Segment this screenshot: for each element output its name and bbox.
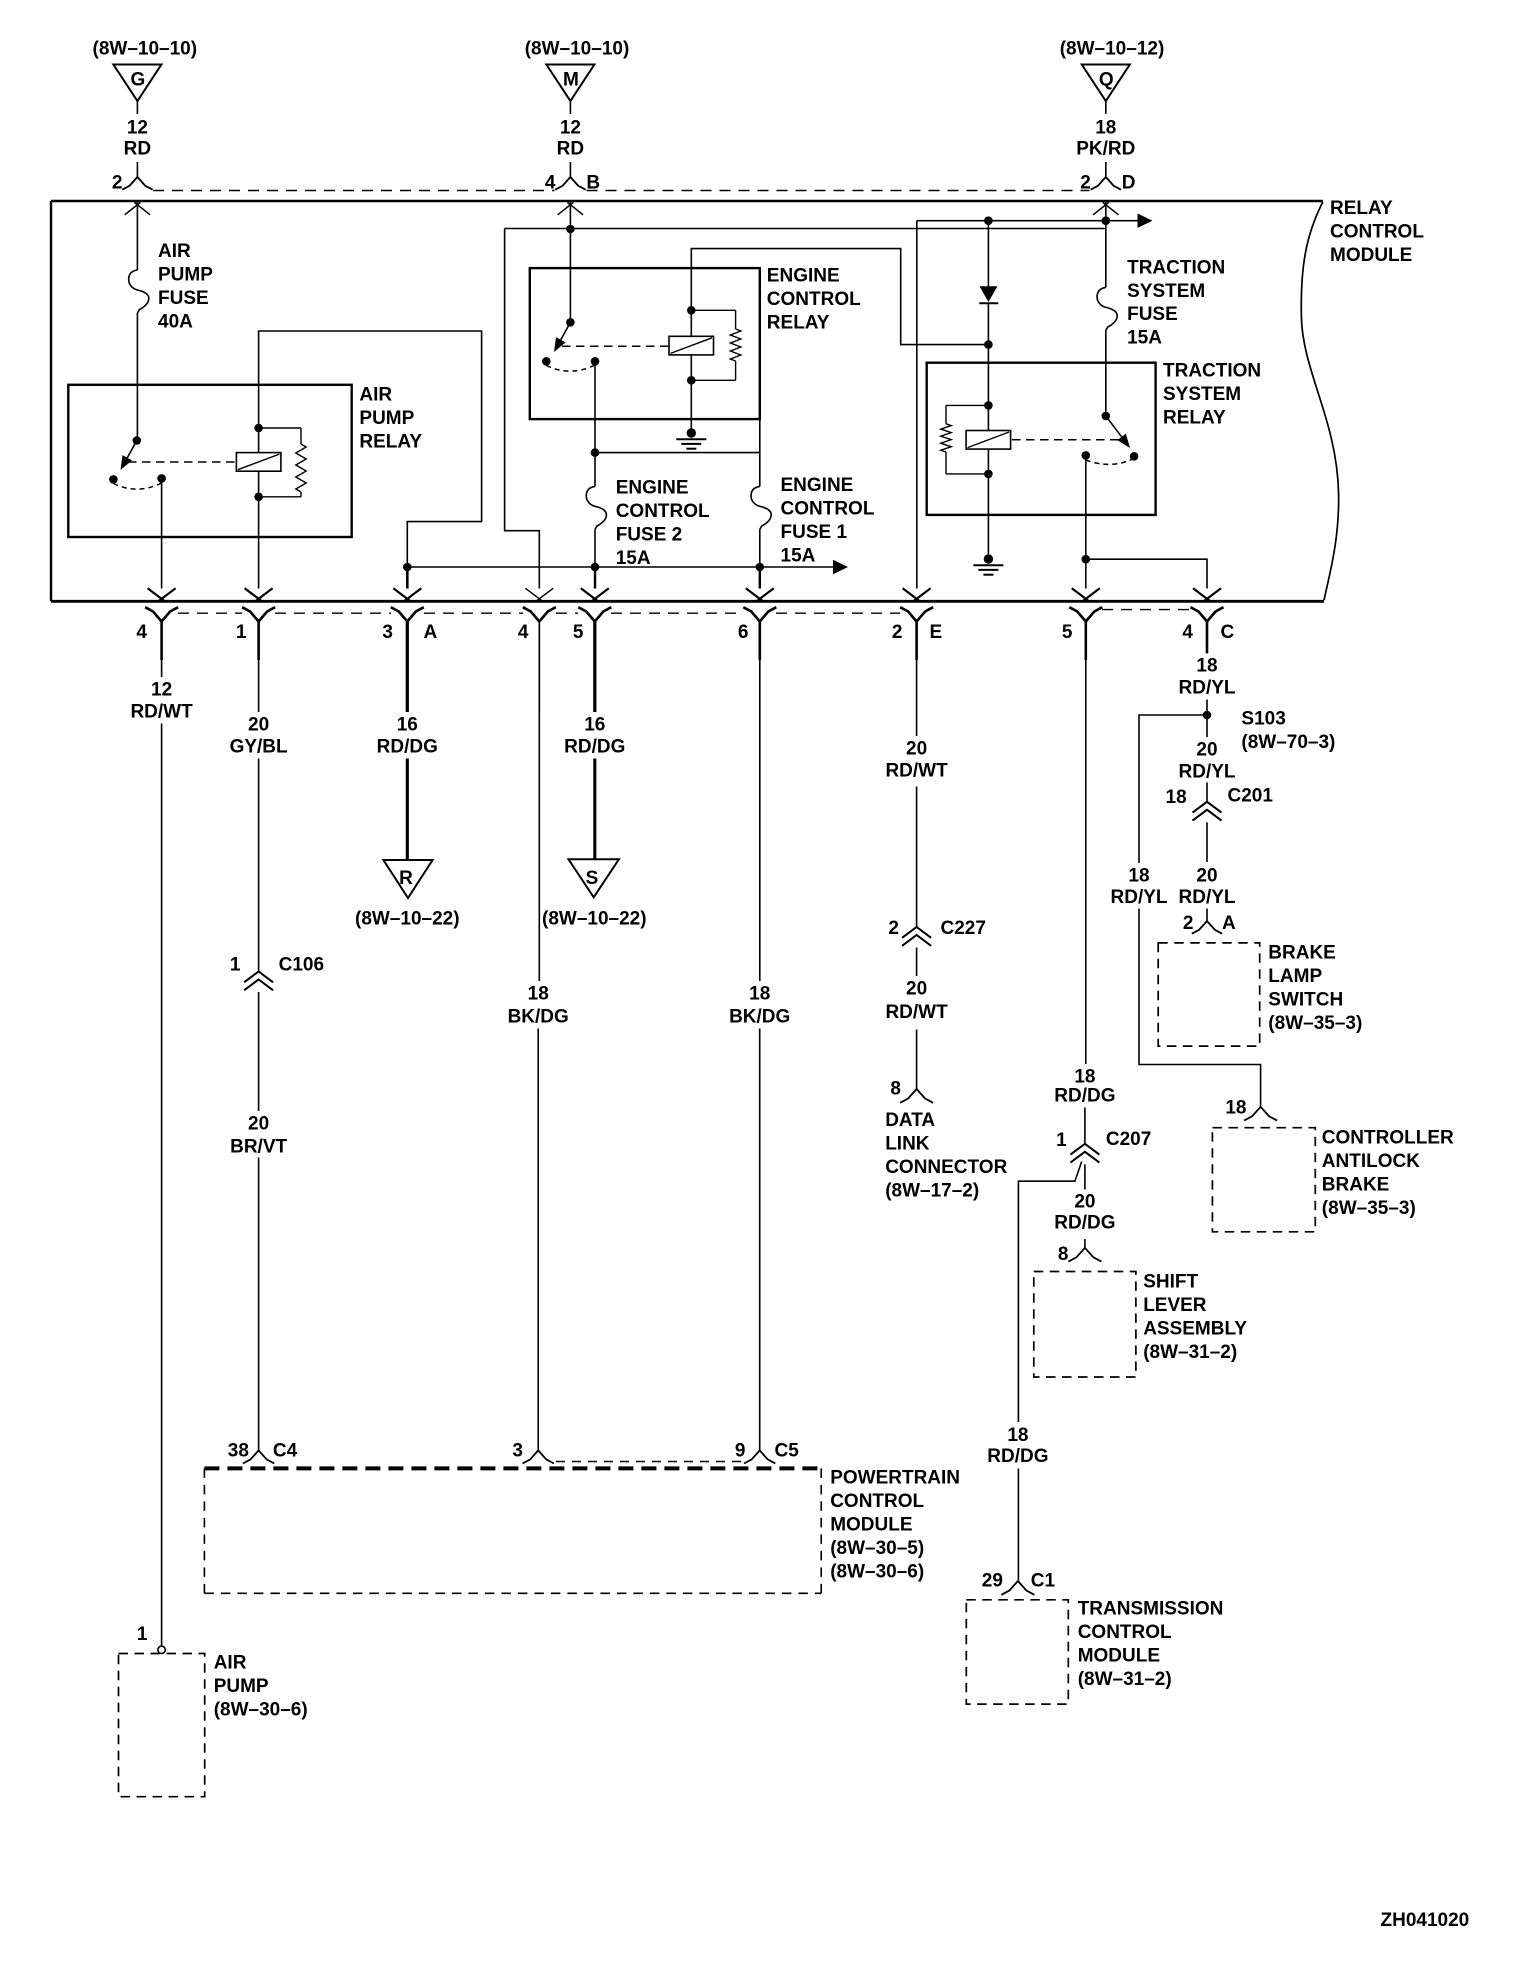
svg-text:AIR: AIR	[359, 384, 392, 405]
svg-text:SWITCH: SWITCH	[1268, 989, 1343, 1010]
svg-text:R: R	[399, 868, 413, 889]
power out triangle S (8W-10-22)	[542, 859, 647, 929]
power feed triangle M (8W-10-10)	[525, 38, 630, 177]
svg-text:LINK: LINK	[885, 1133, 930, 1154]
SHIFT LEVER ASSEMBLY box	[1034, 1272, 1136, 1378]
svg-text:D: D	[1122, 173, 1136, 194]
wire node to pin 5	[594, 567, 596, 589]
module top connector chevrons	[125, 202, 141, 214]
svg-text:C5: C5	[775, 1441, 800, 1462]
wire Q feed through traction fuse	[1105, 202, 1107, 287]
wire air pump relay switch output to pin 4	[161, 478, 163, 588]
svg-text:C106: C106	[279, 955, 324, 976]
svg-text:FUSE 2: FUSE 2	[616, 524, 683, 545]
connector pin 2 D at relay control module (Q feed)	[1080, 173, 1135, 194]
module exit arrow pin 4 C	[1193, 588, 1210, 601]
svg-text:RD/WT: RD/WT	[130, 702, 193, 723]
PCM pin 9 C5 terminal	[735, 1441, 799, 1464]
svg-text:ENGINE: ENGINE	[767, 266, 840, 287]
svg-text:(8W–17–2): (8W–17–2)	[885, 1180, 979, 1201]
harness connector fork at x=161.6	[145, 607, 162, 621]
svg-text:RD/DG: RD/DG	[377, 737, 438, 758]
wire 18 RD/DG (pin 5 to C207)	[1085, 660, 1087, 1064]
svg-text:CONTROL: CONTROL	[1078, 1622, 1172, 1643]
svg-text:3: 3	[512, 1441, 523, 1462]
engine control relay resistor	[691, 310, 741, 380]
svg-text:AIR: AIR	[214, 1653, 247, 1674]
node B junction	[566, 225, 575, 234]
svg-text:BRAKE: BRAKE	[1268, 943, 1336, 964]
wire traction fuse to relay switch	[1105, 330, 1107, 416]
svg-text:CONTROL: CONTROL	[830, 1491, 924, 1512]
label 16 RD/DG (left)	[377, 715, 438, 758]
module exit arrow pin 4	[148, 588, 165, 601]
diode	[979, 216, 998, 405]
svg-text:38: 38	[228, 1441, 249, 1462]
svg-text:C207: C207	[1106, 1129, 1151, 1150]
air pump relay resistor	[259, 428, 307, 497]
engine control relay coil	[669, 306, 714, 385]
svg-text:BR/VT: BR/VT	[230, 1137, 287, 1158]
harness connector fork at x=759.8	[743, 607, 760, 621]
svg-text:PUMP: PUMP	[158, 264, 213, 285]
harness connector fork at x=594.8	[578, 607, 595, 621]
wire 18 BK/DG (pin 4 to PCM pin 3)	[538, 622, 540, 982]
svg-text:18: 18	[1166, 787, 1187, 808]
wire traction output branch to pin 4 C	[1086, 559, 1207, 588]
svg-text:SHIFT: SHIFT	[1143, 1272, 1198, 1293]
traction relay coil	[966, 401, 1011, 478]
svg-text:18: 18	[1128, 866, 1149, 887]
label CONTROLLER ANTILOCK BRAKE (8W-35-3)	[1322, 1128, 1454, 1219]
label 18 RD/DG (C207)	[1054, 1067, 1115, 1107]
module exit arrow pin 5 (right)	[1072, 588, 1089, 601]
svg-text:12: 12	[560, 118, 581, 139]
svg-text:(8W–35–3): (8W–35–3)	[1322, 1198, 1416, 1219]
CONTROLLER ANTILOCK BRAKE box	[1212, 1128, 1315, 1232]
svg-text:RD/YL: RD/YL	[1179, 762, 1236, 783]
harness connector fork at x=916.6	[900, 607, 917, 621]
wire fuse to air pump relay switch	[136, 313, 138, 441]
module exit arrow pin 3 A	[393, 588, 410, 601]
air pump relay actuator dashed link	[128, 461, 237, 463]
svg-text:MODULE: MODULE	[1078, 1645, 1160, 1666]
svg-text:SYSTEM: SYSTEM	[1127, 281, 1205, 302]
svg-text:15A: 15A	[616, 548, 651, 569]
svg-text:TRACTION: TRACTION	[1163, 361, 1261, 382]
POWERTRAIN CONTROL MODULE box	[204, 1468, 821, 1593]
svg-text:RELAY: RELAY	[767, 312, 830, 333]
svg-text:(8W–10–22): (8W–10–22)	[355, 908, 460, 929]
wire 12 RD/WT (pin 4 to air pump)	[161, 660, 163, 677]
label 20 RD/WT (upper)	[885, 739, 948, 782]
svg-text:(8W–70–3): (8W–70–3)	[1241, 732, 1335, 753]
wire node A to pin 3	[406, 567, 409, 589]
power feed triangle Q (8W-10-12)	[1060, 38, 1165, 177]
traction relay actuator dashed link	[1012, 439, 1119, 441]
node traction output	[1082, 555, 1091, 564]
svg-text:FUSE 1: FUSE 1	[781, 522, 848, 543]
svg-text:2: 2	[888, 918, 899, 939]
junction link to fuse 1 feed	[591, 448, 760, 457]
engine control relay actuator dashed link	[562, 345, 669, 347]
svg-text:(8W–31–2): (8W–31–2)	[1078, 1669, 1172, 1690]
svg-text:LEVER: LEVER	[1143, 1295, 1207, 1316]
module exit arrow pin 4 (thin)	[525, 588, 542, 601]
traction relay resistor	[941, 405, 989, 474]
BRAKE LAMP SWITCH box	[1158, 943, 1260, 1046]
svg-text:FUSE: FUSE	[1127, 304, 1178, 325]
svg-text:1: 1	[137, 1624, 148, 1645]
label RELAY CONTROL MODULE	[1330, 198, 1424, 266]
label 18 BK/DG (left)	[508, 984, 569, 1028]
harness connector fork at x=258.6	[242, 607, 259, 621]
harness connector fork at x=407.3	[391, 607, 408, 621]
svg-text:Q: Q	[1099, 70, 1114, 91]
svg-text:ENGINE: ENGINE	[616, 477, 689, 498]
svg-text:16: 16	[397, 715, 418, 736]
AIR PUMP component box	[119, 1654, 205, 1797]
svg-text:CONTROL: CONTROL	[781, 498, 875, 519]
TRANSMISSION CONTROL MODULE box	[966, 1600, 1068, 1704]
svg-text:TRACTION: TRACTION	[1127, 257, 1225, 278]
svg-text:20: 20	[906, 979, 927, 1000]
svg-text:2: 2	[1183, 913, 1194, 934]
svg-text:(8W–10–22): (8W–10–22)	[542, 908, 647, 929]
svg-text:18: 18	[1074, 1067, 1095, 1088]
wire 20 BR/VT (C106 to PCM pin 38)	[258, 992, 260, 1111]
svg-text:PUMP: PUMP	[214, 1676, 269, 1697]
svg-text:18: 18	[1196, 656, 1217, 677]
svg-text:15A: 15A	[781, 545, 816, 566]
svg-text:20: 20	[1196, 866, 1217, 887]
connector pin 2 at relay control module (G feed)	[112, 173, 153, 194]
svg-text:BK/DG: BK/DG	[729, 1007, 790, 1028]
svg-text:RD/WT: RD/WT	[885, 761, 948, 782]
wire 16 RD/DG (A to triangle R)	[406, 622, 409, 713]
svg-text:(8W–30–5): (8W–30–5)	[830, 1538, 924, 1559]
label 20 RD/WT (lower)	[885, 979, 948, 1024]
label TRACTION SYSTEM RELAY	[1163, 361, 1261, 429]
svg-text:GY/BL: GY/BL	[230, 737, 288, 758]
label TRANSMISSION CONTROL MODULE (8W-31-2)	[1078, 1599, 1224, 1690]
connector C227	[888, 918, 986, 946]
svg-text:18: 18	[1007, 1425, 1028, 1446]
svg-text:5: 5	[1062, 622, 1073, 643]
relay control module box	[51, 201, 1339, 601]
harness connector fork at x=1085.8	[1069, 607, 1086, 621]
svg-text:MODULE: MODULE	[830, 1514, 912, 1535]
module exit arrow pin 2 E	[903, 588, 920, 601]
svg-text:CONTROL: CONTROL	[1330, 221, 1424, 242]
label ENGINE CONTROL RELAY	[767, 266, 861, 334]
engine control relay ground	[676, 380, 706, 448]
svg-text:C4: C4	[273, 1441, 298, 1462]
svg-text:A: A	[424, 622, 438, 643]
svg-text:18: 18	[528, 984, 549, 1005]
module exit arrow pin 1	[245, 588, 262, 601]
svg-text:8: 8	[890, 1079, 901, 1100]
svg-text:6: 6	[738, 622, 749, 643]
svg-text:20: 20	[1074, 1192, 1095, 1213]
controller antilock brake pin 18 terminal	[1225, 1098, 1277, 1121]
svg-text:RD/YL: RD/YL	[1179, 678, 1236, 699]
power feed triangle G (8W-10-10)	[93, 38, 198, 177]
connector C106	[230, 955, 324, 991]
dashed connector header line (top)	[153, 190, 555, 192]
wire G feed into module	[136, 202, 138, 270]
wire 20 RD/DG (C207 to shift lever)	[1084, 1164, 1086, 1189]
svg-text:12: 12	[151, 680, 172, 701]
engine control relay switch	[542, 318, 599, 371]
wire 20 RD/WT (E to C227)	[916, 660, 918, 736]
brake lamp switch pin 2 A terminal	[1183, 913, 1236, 934]
svg-text:CONTROLLER: CONTROLLER	[1322, 1128, 1454, 1149]
label DATA LINK CONNECTOR (8W-17-2)	[885, 1110, 1007, 1201]
svg-text:FUSE: FUSE	[158, 288, 209, 309]
svg-text:5: 5	[573, 622, 584, 643]
shift lever pin 8 terminal	[1058, 1244, 1101, 1265]
connector C207	[1056, 1129, 1151, 1163]
wire fuse 2 to node	[594, 529, 596, 567]
wire 18 RD/YL (C to S103)	[1206, 652, 1208, 655]
wire air pump relay coil to pin 1	[258, 497, 260, 589]
svg-text:E: E	[930, 622, 943, 643]
power out triangle R (8W-10-22)	[355, 860, 460, 929]
air pump relay coil	[236, 424, 281, 501]
svg-text:C1: C1	[1031, 1571, 1056, 1592]
label 20 RD/YL (upper)	[1179, 740, 1236, 783]
svg-text:1: 1	[236, 622, 247, 643]
air pump relay switch	[109, 436, 166, 489]
svg-text:S103: S103	[1241, 708, 1285, 729]
svg-text:M: M	[563, 70, 579, 91]
svg-text:(8W–35–3): (8W–35–3)	[1268, 1013, 1362, 1034]
svg-text:BK/DG: BK/DG	[508, 1007, 569, 1028]
wire engine relay box to engine control fuse 1	[759, 419, 761, 486]
label 20 RD/DG	[1054, 1192, 1115, 1234]
traction system fuse 15A	[1097, 257, 1225, 348]
svg-text:PUMP: PUMP	[359, 408, 414, 429]
svg-text:POWERTRAIN: POWERTRAIN	[830, 1468, 960, 1489]
svg-text:PK/RD: PK/RD	[1076, 139, 1135, 160]
data link connector pin 8 terminal	[890, 1079, 933, 1103]
traction relay switch	[1082, 412, 1139, 465]
label BRAKE LAMP SWITCH (8W-35-3)	[1268, 943, 1362, 1034]
bus line1 with flow arrow	[917, 214, 1153, 228]
svg-text:DATA: DATA	[885, 1110, 935, 1131]
wire 20 RD/YL (S103 to C201)	[1206, 715, 1208, 737]
svg-text:2: 2	[892, 622, 903, 643]
svg-text:18: 18	[749, 984, 770, 1005]
svg-text:1: 1	[230, 955, 241, 976]
label POWERTRAIN CONTROL MODULE	[830, 1468, 960, 1583]
svg-text:12: 12	[127, 118, 148, 139]
svg-text:RD/DG: RD/DG	[1054, 1086, 1115, 1107]
svg-text:18: 18	[1225, 1098, 1246, 1119]
wire 20 RD/WT (C227 to data link)	[916, 948, 918, 977]
wire 16 RD/DG (pin 5 to triangle S)	[593, 622, 596, 713]
label AIR PUMP (8W-30-6)	[214, 1653, 308, 1721]
svg-text:4: 4	[518, 622, 529, 643]
svg-text:1: 1	[1056, 1130, 1067, 1151]
PCM pin 38 C4 terminal	[228, 1441, 298, 1464]
wire traction relay output to pin 5	[1085, 455, 1087, 588]
label 16 RD/DG (right)	[564, 715, 625, 758]
svg-text:LAMP: LAMP	[1268, 966, 1322, 987]
wire node to pin 6	[759, 567, 761, 589]
svg-text:3: 3	[382, 622, 393, 643]
svg-text:TRANSMISSION: TRANSMISSION	[1078, 1599, 1224, 1620]
svg-text:(8W–30–6): (8W–30–6)	[830, 1561, 924, 1582]
bottom row pin labels	[136, 622, 1234, 643]
svg-text:40A: 40A	[158, 311, 193, 332]
label SHIFT LEVER ASSEMBLY (8W-31-2)	[1143, 1272, 1247, 1363]
svg-text:CONTROL: CONTROL	[767, 289, 861, 310]
wire air pump relay coil feed loop to node A	[259, 331, 482, 565]
svg-text:C201: C201	[1228, 786, 1274, 807]
module exit arrow pin 6	[746, 588, 763, 601]
svg-text:G: G	[131, 70, 146, 91]
svg-text:RD/DG: RD/DG	[987, 1446, 1048, 1467]
wire engine relay coil feed to diode node	[691, 249, 986, 345]
node D junction	[1102, 216, 1111, 225]
svg-text:ENGINE: ENGINE	[781, 475, 854, 496]
svg-text:ANTILOCK: ANTILOCK	[1322, 1151, 1420, 1172]
dashed link between PCM pins	[556, 1461, 743, 1463]
svg-text:29: 29	[982, 1571, 1003, 1592]
svg-text:RELAY: RELAY	[1330, 198, 1393, 219]
svg-text:RD: RD	[557, 139, 584, 160]
svg-text:ZH041020: ZH041020	[1381, 1910, 1470, 1931]
svg-text:20: 20	[248, 715, 269, 736]
svg-text:20: 20	[1196, 740, 1217, 761]
svg-text:RD/DG: RD/DG	[564, 737, 625, 758]
svg-text:4: 4	[1182, 622, 1193, 643]
svg-text:RD/WT: RD/WT	[885, 1002, 948, 1023]
svg-text:RD/YL: RD/YL	[1111, 887, 1168, 908]
svg-text:4: 4	[136, 622, 147, 643]
label 18 RD/DG (TCM)	[987, 1425, 1048, 1467]
air pump fuse 40A	[129, 241, 214, 332]
svg-text:18: 18	[1095, 118, 1116, 139]
fused output bus with flow arrow	[403, 560, 848, 574]
wire engine relay switch output to engine control fuse 2	[594, 361, 596, 486]
label 18 RD/YL	[1179, 656, 1236, 699]
connector pin 4 B at relay control module (M feed)	[545, 173, 600, 194]
wire 18 RD/YL branch (S103 to controller antilock brake)	[1139, 715, 1207, 863]
svg-text:S: S	[586, 868, 599, 889]
wire 20 RD/YL (C201 to brake lamp switch)	[1206, 822, 1208, 862]
svg-text:RELAY: RELAY	[1163, 407, 1226, 428]
svg-text:A: A	[1222, 913, 1236, 934]
traction relay ground	[973, 474, 1003, 575]
connector C201	[1166, 786, 1274, 821]
svg-text:ASSEMBLY: ASSEMBLY	[1143, 1318, 1247, 1339]
svg-text:RD/DG: RD/DG	[1054, 1213, 1115, 1234]
dashed connector row (bottom)	[178, 612, 242, 614]
svg-text:9: 9	[735, 1441, 746, 1462]
label 20 RD/YL (lower)	[1179, 866, 1236, 909]
label 18 BK/DG (right)	[729, 984, 790, 1028]
svg-text:BRAKE: BRAKE	[1322, 1174, 1390, 1195]
PCM pin 3 terminal	[512, 1441, 553, 1464]
svg-text:C227: C227	[941, 918, 986, 939]
label 18 RD/YL (branch)	[1111, 866, 1168, 909]
label 20 BR/VT	[230, 1114, 287, 1158]
svg-text:2: 2	[112, 173, 123, 194]
svg-text:(8W–31–2): (8W–31–2)	[1143, 1342, 1237, 1363]
svg-text:(8W–30–6): (8W–30–6)	[214, 1699, 308, 1720]
svg-text:8: 8	[1058, 1244, 1069, 1265]
harness connector fork at x=539.3	[523, 607, 540, 621]
wire 20 GY/BL (pin 1 to C106)	[258, 660, 260, 712]
svg-text:(8W–10–10): (8W–10–10)	[93, 38, 198, 59]
svg-text:CONTROL: CONTROL	[616, 501, 710, 522]
harness connector fork at x=1207	[1191, 607, 1208, 621]
wire fuse 1 to node	[759, 529, 761, 567]
svg-text:MODULE: MODULE	[1330, 245, 1412, 266]
label 12 RD/WT	[130, 680, 193, 723]
svg-text:AIR: AIR	[158, 241, 191, 262]
svg-text:(8W–10–12): (8W–10–12)	[1060, 38, 1165, 59]
svg-text:C: C	[1221, 622, 1235, 643]
svg-text:CONNECTOR: CONNECTOR	[885, 1157, 1007, 1178]
traction system relay box	[927, 363, 1156, 515]
svg-text:RD/YL: RD/YL	[1179, 887, 1236, 908]
engine control relay box	[530, 268, 760, 419]
wire 18 BK/DG (pin 6 to PCM pin 9)	[759, 660, 761, 981]
wire 18 RD/DG branch (C207 to TCM)	[1018, 1162, 1081, 1423]
svg-text:(8W–10–10): (8W–10–10)	[525, 38, 630, 59]
svg-text:20: 20	[906, 739, 927, 760]
svg-text:SYSTEM: SYSTEM	[1163, 384, 1241, 405]
svg-text:15A: 15A	[1127, 328, 1162, 349]
label 20 GY/BL	[230, 715, 288, 758]
wire M feed into module	[569, 202, 571, 322]
air pump pin 1 terminal	[137, 1624, 165, 1654]
wire E bus	[916, 221, 918, 589]
module exit arrow pin 5	[581, 588, 598, 601]
wire B bus to traction fuse	[505, 228, 1106, 230]
TCM pin 29 C1 terminal	[982, 1571, 1056, 1595]
label AIR PUMP RELAY	[359, 384, 422, 452]
svg-text:16: 16	[584, 715, 605, 736]
splice S103	[1203, 708, 1336, 753]
air pump relay box	[68, 385, 351, 537]
svg-text:20: 20	[248, 1114, 269, 1135]
engine control fuse 1 15A	[751, 475, 875, 566]
svg-text:RELAY: RELAY	[359, 431, 422, 452]
engine control fuse 2 15A	[586, 477, 710, 568]
svg-text:RD: RD	[124, 139, 151, 160]
